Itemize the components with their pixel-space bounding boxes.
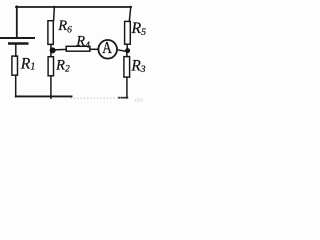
wire node A to R4: [55, 48, 66, 50]
node B junction dot: [125, 48, 130, 53]
wire R1 to bottom-left corner: [15, 75, 17, 97]
resistor R3: [124, 57, 130, 78]
wire R3 to bottom-right corner: [126, 77, 128, 98]
resistor R2: [48, 57, 53, 76]
battery long plate: [1, 37, 34, 39]
wire top horizontal: [16, 6, 131, 8]
wire bottom horizontal (solid part): [16, 95, 72, 97]
wire node B to R3: [126, 52, 128, 57]
wire bottom-right stub: [119, 97, 128, 99]
wire node A to R2: [50, 52, 52, 56]
wire R2 to bottom wire: [50, 76, 52, 98]
wire left vertical (top corner to battery): [16, 6, 18, 37]
battery short plate: [9, 42, 27, 45]
ammeter U1 circle: [98, 40, 117, 59]
node A junction dot: [50, 47, 56, 53]
wire ammeter to node B: [117, 50, 125, 52]
resistor R4: [66, 46, 90, 51]
wire R6 to node A: [50, 44, 52, 48]
resistor R5: [125, 21, 131, 44]
wire top-right corner to R5: [129, 7, 131, 22]
resistor R1: [12, 56, 18, 75]
wire R5 to node B: [126, 44, 128, 48]
svg-text:A: A: [102, 38, 112, 57]
faint scan artifact dashed line bottom: [71, 97, 122, 99]
resistor R6: [48, 21, 53, 45]
wire top T-junction to R6: [53, 7, 56, 21]
svg-text:om: om: [135, 97, 144, 103]
wire battery to R1: [15, 45, 17, 57]
wire R4 to ammeter: [90, 48, 99, 50]
